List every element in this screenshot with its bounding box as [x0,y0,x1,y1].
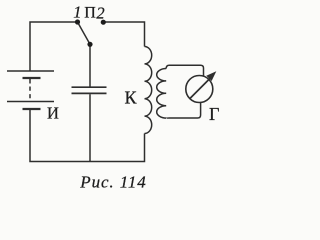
svg-text:1: 1 [73,3,81,22]
svg-text:Рис. 114: Рис. 114 [79,173,146,192]
svg-text:П: П [84,5,96,22]
svg-text:Г: Г [209,104,219,124]
svg-text:И: И [47,103,59,122]
svg-text:К: К [125,88,138,108]
svg-text:2: 2 [96,4,104,23]
